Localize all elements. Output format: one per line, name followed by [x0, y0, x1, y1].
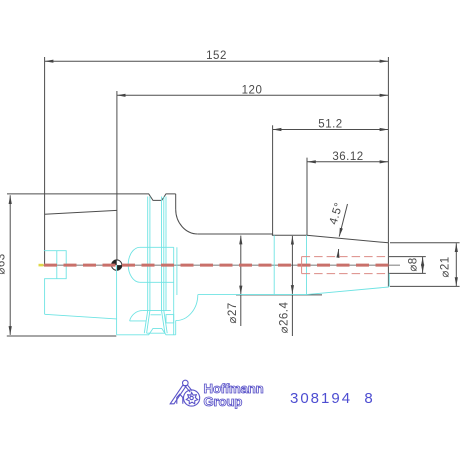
left bore box [44, 251, 66, 315]
left face upper [44, 194, 46, 265]
Hoffmann Group logo [170, 380, 200, 406]
fillet arc lower [176, 295, 198, 321]
shank taper top [45, 210, 117, 214]
svg-text:⌀8: ⌀8 [408, 257, 420, 271]
right common extension line [387, 57, 389, 243]
dimension 152 [45, 57, 389, 194]
step verticals right [273, 235, 275, 294]
dimension dia27 [236, 236, 322, 326]
angle 4.5 leader [338, 204, 347, 255]
flange right edge upper [175, 194, 177, 209]
flange right edge lower [175, 321, 177, 335]
svg-text:36.12: 36.12 [332, 151, 363, 163]
wing [130, 311, 143, 321]
svg-text:⌀63: ⌀63 [0, 253, 8, 274]
dimension dia21 [390, 243, 460, 287]
lower shank taper [45, 314, 117, 319]
svg-text:⌀26.4: ⌀26.4 [279, 301, 291, 333]
balance dot [112, 260, 122, 270]
body: top line with flange notch [7, 194, 176, 201]
svg-text:⌀21: ⌀21 [440, 256, 452, 277]
bottom edge dia27/26.4 [198, 294, 307, 296]
dimension 120 [117, 91, 389, 194]
flange face line [116, 194, 118, 265]
tip face [387, 243, 389, 287]
svg-text:Group: Group [204, 394, 243, 409]
hidden bore red dashed [302, 257, 388, 274]
svg-text:51.2: 51.2 [318, 119, 342, 131]
svg-text:308194 8: 308194 8 [290, 390, 375, 407]
flange bottom with notch [117, 328, 176, 334]
dimension texts [0, 50, 452, 333]
fillet arc upper [176, 209, 198, 234]
svg-text:⌀27: ⌀27 [227, 302, 239, 323]
svg-text:120: 120 [242, 84, 263, 96]
dimension dia26.4 [291, 236, 293, 336]
cyan section geometry [44, 197, 389, 335]
coolant tube stadium [128, 247, 140, 282]
centerline red dashes [39, 264, 391, 267]
dia27 top edge [198, 234, 307, 235]
flange face lower [116, 265, 118, 335]
dimension 51.2 [273, 125, 389, 235]
groove verticals [147, 197, 149, 311]
svg-text:152: 152 [206, 50, 227, 62]
dimension 36.12 [307, 158, 388, 236]
nose taper top [307, 235, 389, 243]
dimension dia63 [7, 195, 117, 336]
nose taper bottom [307, 287, 389, 295]
dimension dia8 [389, 257, 426, 274]
centerline thin [40, 264, 400, 266]
